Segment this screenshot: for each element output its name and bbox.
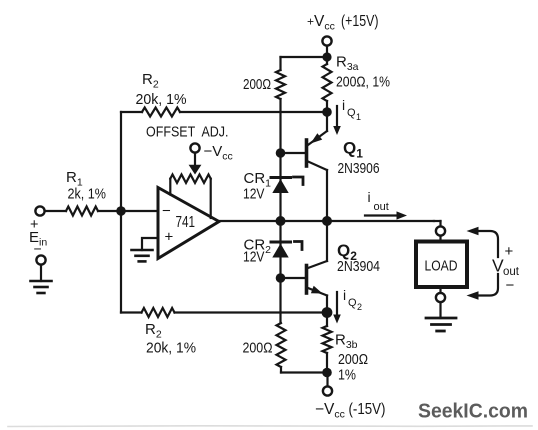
- node: zener midpoint on output line: [276, 216, 286, 226]
- label 200 ohm lower left: [243, 340, 273, 357]
- watermark SeekIC.com: [418, 400, 528, 423]
- wire bottom feedback line R2: [121, 311, 142, 313]
- label -Vcc (-15V): [315, 401, 386, 421]
- zener rail upper segment: [279, 99, 281, 323]
- resistor R2 (top feedback, 20k): [142, 108, 180, 117]
- svg-text:(+15V): (+15V): [341, 13, 379, 30]
- svg-text:200Ω, 1%: 200Ω, 1%: [336, 74, 390, 91]
- svg-text:out: out: [374, 201, 389, 213]
- label + Ein -: [29, 217, 47, 257]
- Vout bracket top arrow: [467, 227, 499, 257]
- svg-text:R3b: R3b: [335, 332, 358, 352]
- svg-text:LOAD: LOAD: [425, 259, 458, 275]
- ground symbol load: [426, 318, 456, 331]
- svg-text:200Ω: 200Ω: [243, 340, 273, 357]
- wire terminal to load box: [439, 236, 441, 242]
- wire lower-left 200 ohm to R3b bottom: [281, 371, 327, 373]
- label +Vcc (+15V): [307, 13, 379, 33]
- wire bottom R2 to Q2 emitter node (crosses zener rail without junction): [175, 311, 324, 313]
- potentiometer wiper terminal to -Vcc: [189, 143, 202, 174]
- label OFFSET ADJ.: [146, 124, 229, 141]
- svg-text:−: −: [506, 277, 515, 294]
- label iQ2: [343, 287, 362, 312]
- svg-text:741: 741: [176, 214, 196, 231]
- label iQ1: [342, 97, 361, 122]
- transistor Q2 2N3904 (NPN): [281, 221, 328, 313]
- current arrow iQ2: [333, 292, 341, 324]
- wire R2 top to node (crosses zener rail without junction): [180, 111, 323, 113]
- wire op-amp output to node line: [219, 220, 434, 222]
- svg-text:R3a: R3a: [336, 54, 359, 74]
- load bottom terminal: [436, 293, 445, 302]
- current arrow i out: [365, 211, 407, 219]
- svg-text:−: −: [34, 241, 42, 257]
- svg-text:1: 1: [356, 112, 361, 122]
- node: -Vcc junction: [322, 368, 332, 378]
- label R2 top: [136, 71, 187, 108]
- node: Q2 emitter / R3b junction: [322, 307, 333, 318]
- svg-text:200Ω: 200Ω: [338, 351, 368, 368]
- LOAD box: [416, 242, 467, 288]
- label R1 2k 1%: [66, 169, 106, 203]
- current arrow iQ1: [333, 106, 341, 135]
- label LOAD: [425, 259, 458, 275]
- svg-text:(-15V): (-15V): [349, 401, 386, 418]
- svg-text:Q1: Q1: [343, 139, 363, 161]
- +Vcc supply terminal: [322, 36, 331, 55]
- ground symbol Ein: [31, 281, 52, 293]
- label 200 ohm upper left: [243, 76, 271, 93]
- resistor 200 ohm (lower left), vertical: [277, 323, 286, 373]
- zener diode CR2: [271, 242, 302, 258]
- -Vcc supply terminal: [323, 373, 332, 396]
- load top terminal: [436, 226, 445, 235]
- label Q1 2N3906: [338, 139, 380, 178]
- svg-text:2k, 1%: 2k, 1%: [68, 186, 107, 203]
- zener diode CR1: [271, 177, 303, 193]
- svg-text:+: +: [505, 243, 514, 260]
- resistor R3a: [323, 57, 332, 112]
- Vout bracket bottom arrow: [467, 274, 499, 300]
- svg-text:20k, 1%: 20k, 1%: [136, 91, 187, 108]
- svg-text:12V: 12V: [243, 186, 265, 203]
- svg-text:i: i: [342, 97, 345, 113]
- svg-text:R2: R2: [145, 321, 162, 341]
- label -Vcc at pot: [204, 143, 233, 163]
- node: collectors junction on output line: [322, 216, 332, 226]
- op-amp U1 741: [158, 188, 219, 259]
- label Q2 2N3904: [337, 241, 380, 275]
- svg-text:i: i: [368, 189, 371, 205]
- label R3a 200 ohm 1%: [336, 54, 390, 91]
- svg-text:Vcc: Vcc: [314, 13, 335, 33]
- label i out: [368, 189, 389, 213]
- svg-text:R2: R2: [142, 71, 159, 91]
- svg-text:Q: Q: [347, 107, 356, 119]
- resistor R1 2k: [66, 207, 98, 216]
- node: Q2 base junction: [276, 273, 286, 283]
- label CR2 12V: [243, 237, 271, 266]
- svg-text:20k, 1%: 20k, 1%: [146, 340, 196, 357]
- svg-text:2: 2: [357, 302, 362, 312]
- scan artifact streak: [8, 425, 532, 428]
- label R3b 200 ohm 1%: [335, 332, 368, 384]
- resistor R2 (bottom feedback, 20k): [142, 308, 175, 317]
- svg-text:OFFSET ADJ.: OFFSET ADJ.: [146, 124, 229, 141]
- wire node line corner down to load terminal: [434, 220, 441, 222]
- wire op-amp + input to ground: [142, 238, 158, 250]
- ground symbol op-amp: [132, 250, 153, 261]
- svg-text:200Ω: 200Ω: [243, 76, 271, 93]
- resistor R3b: [323, 313, 332, 373]
- resistor 200 ohm (upper left), vertical: [276, 57, 285, 99]
- wire bottom terminal to ground: [439, 302, 441, 318]
- svg-text:SeekIC.com: SeekIC.com: [418, 400, 528, 423]
- node: +Vcc junction: [322, 52, 331, 61]
- svg-text:−: −: [162, 203, 171, 220]
- svg-text:1%: 1%: [338, 367, 356, 384]
- wire +Vcc junction to left branch: [281, 56, 323, 58]
- svg-text:−Vcc: −Vcc: [315, 401, 345, 421]
- node: Q1 emitter / R3a junction: [322, 107, 332, 117]
- label 741 and input signs: [162, 203, 195, 246]
- svg-text:i: i: [343, 287, 346, 303]
- svg-text:−Vcc: −Vcc: [204, 143, 233, 163]
- label Vout + -: [492, 243, 520, 294]
- svg-text:Q: Q: [348, 297, 357, 309]
- label CR1 12V: [243, 170, 271, 203]
- ground terminal of Ein: [36, 255, 45, 281]
- input terminal Ein: [35, 206, 66, 215]
- node: Q1 base junction: [276, 148, 286, 158]
- wire load box to bottom terminal: [439, 287, 441, 293]
- svg-text:2N3906: 2N3906: [338, 160, 380, 177]
- svg-text:12V: 12V: [243, 249, 265, 266]
- label R2 bottom: [145, 321, 196, 357]
- offset adjust potentiometer body: [170, 175, 210, 219]
- svg-text:+: +: [307, 15, 314, 29]
- transistor Q1 2N3906 (PNP): [281, 112, 328, 221]
- svg-text:2N3904: 2N3904: [337, 258, 380, 275]
- wire: feedback top R2 line from left rail to Q1 emitter node: [121, 111, 142, 113]
- svg-text:+: +: [165, 229, 174, 246]
- node: summing junction: [116, 206, 126, 216]
- wire R1 to op-amp inverting input: [98, 210, 158, 212]
- wire: left feedback rail: [120, 112, 122, 313]
